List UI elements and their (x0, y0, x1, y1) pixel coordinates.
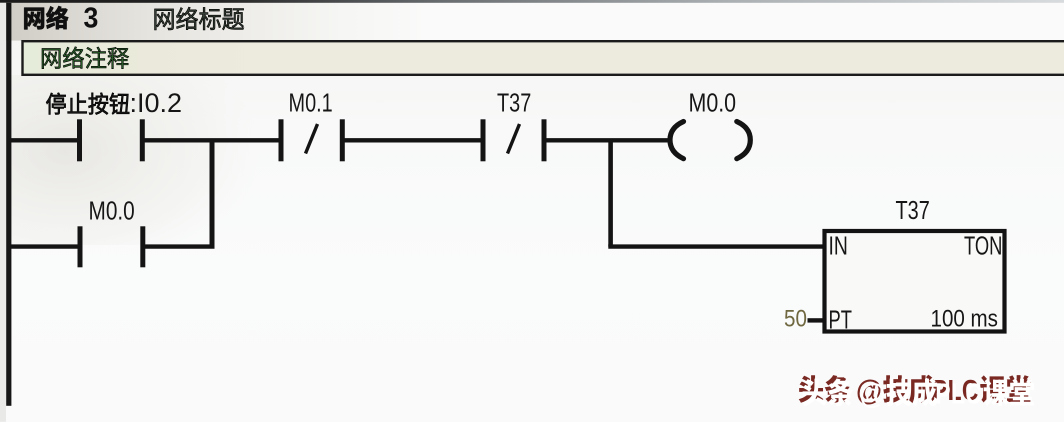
coil M0.0 (670, 122, 750, 159)
svg-text:100 ms: 100 ms (931, 305, 998, 332)
contact label 停止按钮:I0.2 (46, 88, 182, 118)
branch junction node (parallel contact joins rung 1) (210, 140, 215, 246)
editor top border (0, 0, 1064, 3)
soft gray wash top-left of ladder area (0, 75, 260, 245)
svg-text:M0.0: M0.0 (89, 196, 135, 225)
timer box T37 (TON) (825, 231, 1005, 332)
svg-text:PT: PT (829, 305, 853, 334)
svg-text:T37: T37 (896, 196, 930, 225)
svg-text:50: 50 (784, 305, 807, 332)
svg-text:3: 3 (84, 2, 99, 34)
left margin strip (0, 3, 6, 422)
NC slash of T37 (508, 124, 520, 154)
header band background (0, 3, 1064, 41)
svg-text:TON: TON (964, 231, 1002, 260)
contact T37 (normally closed) (481, 119, 547, 161)
network title label "网络标题" (155, 7, 244, 30)
network comment box (23, 41, 1064, 75)
svg-text:M0.1: M0.1 (289, 88, 333, 117)
svg-text:IN: IN (829, 232, 848, 260)
NC slash of M0.1 (306, 124, 318, 154)
svg-text:T37: T37 (497, 88, 531, 117)
contact M0.1 (normally closed) (279, 119, 345, 161)
PT input tick (808, 318, 824, 322)
contact M0.0 (normally open, parallel branch) (78, 226, 146, 267)
network header label "网络 3" (24, 2, 98, 34)
svg-text::I0.2: :I0.2 (130, 88, 183, 118)
left power rail (6, 3, 11, 406)
contact 停止按钮:I0.2 (normally open) (77, 119, 145, 161)
rung 2 (parallel branch) wire segments (11, 244, 215, 248)
svg-text:M0.0: M0.0 (689, 89, 737, 117)
branch junction node (timer feed from rung 1) (608, 140, 613, 246)
rung 1 wire segments (11, 138, 669, 142)
timer feed wire (to IN of T37 box) (608, 244, 823, 248)
network comment text "网络注释" (42, 47, 129, 69)
